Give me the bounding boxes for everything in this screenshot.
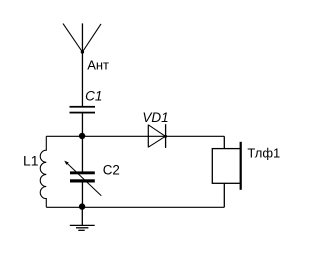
variable capacitor C2 plates: [70, 171, 95, 182]
label C1: [85, 88, 102, 103]
label Ант: [87, 58, 109, 73]
wire top horizontal rail: [46, 135, 224, 137]
antenna mast vertical wire: [81, 23, 83, 106]
antenna right arm: [82, 24, 101, 52]
wire earphone bottom to bottom rail: [223, 183, 225, 207]
inductor L1 coil (left branch): [40, 136, 46, 207]
svg-text:Ант: Ант: [87, 58, 109, 73]
C2 variable arrow: [64, 161, 101, 196]
label Тлф1: [247, 145, 280, 160]
node A junction dot: [79, 133, 85, 139]
wire top-right corner down to earphone: [223, 136, 225, 148]
svg-text:VD1: VD1: [142, 110, 168, 125]
node B junction dot: [79, 203, 85, 209]
wire C1 bottom to node A: [81, 113, 83, 136]
svg-text:Тлф1: Тлф1: [247, 145, 280, 160]
wire bottom horizontal rail: [46, 206, 224, 208]
svg-text:L1: L1: [23, 152, 39, 168]
earphone Тлф1 body: [212, 142, 242, 190]
ground symbol: [70, 225, 95, 230]
node: antenna apex dot: [81, 50, 84, 53]
capacitor C1 plates: [70, 106, 96, 114]
wire node B to ground: [81, 207, 83, 225]
wire C2 bottom plate down to node B: [81, 182, 83, 207]
wire node A down to C2 top plate: [81, 136, 83, 171]
svg-text:C2: C2: [103, 163, 120, 178]
label L1: [23, 152, 39, 168]
label VD1: [142, 110, 168, 125]
label C2: [103, 163, 120, 178]
antenna left arm: [63, 24, 82, 52]
svg-text:C1: C1: [85, 88, 102, 103]
diode VD1: [148, 124, 167, 148]
